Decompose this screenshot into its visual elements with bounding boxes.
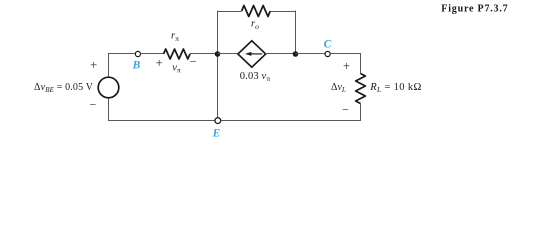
resistor r_pi — [164, 49, 190, 59]
node B (open terminal) — [135, 51, 140, 56]
resistor r_o — [242, 6, 271, 17]
voltage source ΔvBE — [98, 77, 119, 98]
wire: top rail right segment — [270, 11, 296, 13]
svg-text:B: B — [132, 60, 141, 72]
svg-text:ro: ro — [251, 19, 259, 31]
svg-text:+: + — [90, 58, 97, 72]
junction dot at collector node — [293, 51, 299, 57]
svg-text:rπ: rπ — [171, 31, 179, 43]
svg-text:−: − — [90, 98, 97, 112]
svg-text:C: C — [324, 39, 332, 51]
svg-text:−: − — [190, 55, 197, 69]
wire: center vertical (node to top rail and down to E) — [217, 11, 219, 121]
svg-text:ΔvL: ΔvL — [331, 82, 346, 94]
wire: node B to r_pi — [141, 53, 164, 55]
svg-text:RL = 10 kΩ: RL = 10 kΩ — [369, 82, 421, 94]
wire: source top lead — [108, 54, 110, 78]
svg-text:0.03 vπ: 0.03 vπ — [240, 71, 271, 83]
wire: R_L bottom lead — [360, 104, 362, 121]
svg-text:vπ: vπ — [172, 63, 181, 75]
wire: node C to top-right corner and down — [330, 54, 360, 74]
wire: top rail left segment — [217, 11, 242, 13]
arrow inside source (pointing left) — [251, 53, 263, 55]
dependent current source 0.03 v_pi (diamond) — [238, 41, 266, 67]
node E (open terminal) — [215, 118, 221, 124]
wire: r_pi to center node — [190, 53, 218, 55]
wire: rail from source to node B — [108, 53, 135, 55]
wire: source bottom lead — [108, 98, 110, 121]
svg-text:Figure P7.3.7: Figure P7.3.7 — [441, 4, 508, 15]
svg-text:−: − — [342, 103, 349, 117]
junction dot at r_pi output node — [215, 51, 221, 57]
wire: bottom rail left of E — [108, 120, 215, 122]
svg-text:E: E — [212, 128, 221, 140]
wire: dependent source to node C junction — [266, 53, 296, 55]
wire: junction to node C terminal — [296, 53, 325, 55]
svg-text:ΔvBE = 0.05 V: ΔvBE = 0.05 V — [34, 82, 94, 94]
wire: bottom rail right of E — [221, 120, 361, 122]
svg-text:+: + — [156, 56, 163, 70]
resistor R_L — [356, 74, 366, 104]
svg-text:+: + — [343, 59, 350, 73]
node C (open terminal) — [325, 51, 330, 56]
wire: right vertical of r_o loop — [295, 11, 297, 55]
wire: center node to dependent source — [218, 53, 238, 55]
